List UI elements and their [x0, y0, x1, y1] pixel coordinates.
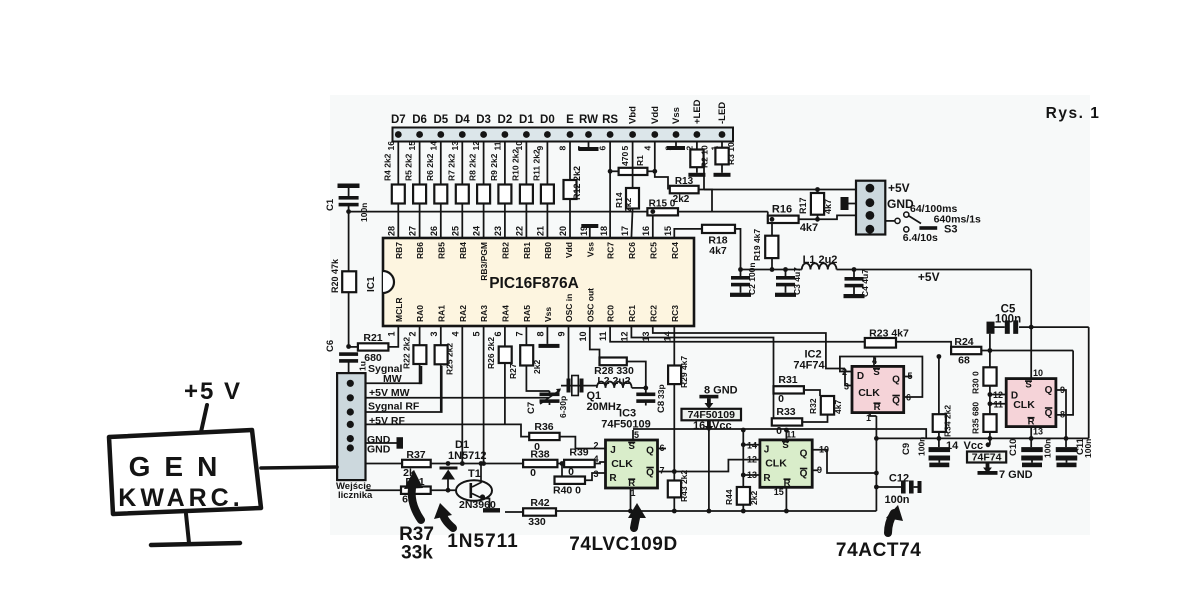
svg-text:R23 4k7: R23 4k7: [869, 328, 909, 340]
svg-text:GND: GND: [367, 444, 391, 456]
connector J2 Wejscie licznika: [337, 373, 365, 480]
inductor L1 2u2: [802, 263, 837, 269]
svg-text:33p: 33p: [656, 384, 666, 399]
svg-text:3: 3: [429, 332, 439, 337]
svg-text:R22 2k2: R22 2k2: [402, 337, 412, 369]
inductor L2 2u2: [597, 382, 632, 388]
wire Sygnal MW to R22: [366, 366, 422, 383]
wire loop D to Qbar: [840, 357, 923, 398]
svg-text:0: 0: [776, 425, 782, 437]
svg-text:Sygnal RF: Sygnal RF: [368, 401, 420, 413]
svg-text:R21: R21: [363, 332, 382, 344]
wire R28 to C8: [627, 362, 646, 393]
resistor R29 4k7: [668, 366, 681, 385]
wire C1 column: [348, 203, 350, 347]
svg-text:D4: D4: [455, 114, 470, 126]
svg-text:2: 2: [408, 332, 418, 337]
svg-text:R13: R13: [675, 176, 694, 187]
resistor R7 2k2: [456, 185, 469, 204]
resistor R26 2k2: [504, 326, 506, 347]
svg-text:100n: 100n: [1043, 439, 1053, 458]
svg-text:R7 2k2: R7 2k2: [446, 153, 456, 181]
svg-text:R19 4k7: R19 4k7: [752, 229, 762, 261]
capacitor C2 100n: [738, 267, 743, 272]
ground RW pin7: [579, 147, 599, 151]
node R19 top: [770, 217, 775, 222]
ground R3: [714, 173, 731, 177]
wire Q pin5: [904, 376, 912, 378]
resistor R11 2k2: [541, 185, 554, 204]
wire OSCout elbow: [590, 326, 600, 362]
svg-text:Q: Q: [1045, 385, 1053, 396]
svg-text:+LED: +LED: [692, 99, 703, 124]
wire GND row: [366, 442, 398, 444]
svg-text:11: 11: [993, 400, 1003, 410]
svg-text:15: 15: [663, 226, 673, 236]
capacitor C4 4u7: [852, 267, 857, 272]
svg-text:R30 0: R30 0: [971, 371, 981, 394]
svg-text:8 GND: 8 GND: [704, 385, 738, 397]
resistor R3 10: [715, 148, 728, 165]
wire to pin16: [652, 215, 654, 238]
svg-text:4: 4: [642, 146, 652, 151]
svg-text:2k2: 2k2: [532, 360, 542, 374]
svg-text:100n: 100n: [1083, 439, 1093, 458]
svg-text:0: 0: [530, 467, 536, 479]
node R43 top: [672, 469, 677, 474]
capacitor C6 1u: [339, 352, 358, 356]
LCD header bar J1: [393, 128, 734, 142]
wire FF pink1 pin4 top: [873, 357, 875, 367]
svg-text:2N3960: 2N3960: [459, 499, 496, 511]
svg-text:R35 680: R35 680: [971, 402, 981, 434]
svg-text:C9: C9: [901, 443, 912, 455]
svg-text:7: 7: [659, 466, 664, 476]
header pin D4: [459, 131, 466, 138]
resistor R4 column wire: [397, 142, 399, 239]
header pin D3: [480, 131, 487, 138]
transistor T1 2N3960: [456, 480, 492, 501]
resistor R16 4k7: [767, 212, 769, 220]
resistor R8 2k2: [477, 185, 490, 204]
svg-text:R11 2k2: R11 2k2: [531, 149, 541, 181]
svg-text:100n: 100n: [359, 203, 369, 222]
resistor R42 330: [523, 508, 556, 515]
svg-text:RC0: RC0: [606, 305, 616, 322]
resistor R5 column wire: [419, 142, 421, 239]
resistor R33 0: [773, 394, 775, 423]
wire FF1 pin1 bottom: [630, 488, 632, 511]
svg-text:20MHz: 20MHz: [587, 401, 622, 413]
wire bottom long row: [505, 511, 523, 513]
flip-flop IC2a body: [852, 366, 904, 412]
wire FF2 pin14: [743, 444, 760, 446]
svg-text:R: R: [763, 473, 771, 484]
capacitor C1 100n: [338, 184, 360, 189]
svg-text:R: R: [609, 473, 617, 484]
wire FF2 pin11: [785, 430, 787, 440]
resistor R38 0: [523, 460, 557, 467]
svg-text:330: 330: [528, 516, 546, 528]
resistor R9 column wire: [504, 142, 506, 239]
wire +LED column: [696, 142, 698, 150]
svg-text:D6: D6: [412, 114, 427, 126]
wire R15 to R16: [678, 211, 768, 213]
svg-text:D7: D7: [391, 114, 406, 126]
node R20/R21/C6: [346, 344, 351, 349]
svg-text:13: 13: [450, 141, 460, 151]
header pin E: [567, 131, 574, 138]
svg-text:5: 5: [634, 430, 639, 440]
hand arrow to 2N3960: [443, 513, 453, 528]
resistor R4 2k2: [392, 185, 405, 204]
wire R41 to T1 base: [431, 489, 456, 491]
svg-text:D2: D2: [498, 114, 513, 126]
svg-text:27: 27: [408, 226, 418, 236]
resistor R10 column wire: [525, 142, 527, 239]
node RS/R1: [608, 169, 613, 174]
svg-text:6: 6: [493, 332, 503, 337]
svg-text:R38: R38: [530, 449, 549, 461]
resistor R14 2k2: [626, 188, 639, 209]
svg-text:4k7: 4k7: [709, 245, 727, 257]
resistor R31 0: [774, 386, 804, 393]
svg-text:CLK: CLK: [765, 458, 787, 470]
svg-text:C2 100n: C2 100n: [747, 262, 757, 295]
svg-text:D0: D0: [540, 114, 555, 126]
svg-text:1N5712: 1N5712: [448, 450, 487, 462]
svg-text:D: D: [857, 371, 864, 382]
wire RC0 bus: [610, 326, 865, 342]
wire R30 to R35: [989, 386, 991, 415]
svg-text:RC1: RC1: [627, 305, 637, 322]
wire -LED column: [721, 142, 723, 148]
resistor R30 0: [983, 367, 996, 385]
svg-text:R43 2k2: R43 2k2: [679, 470, 689, 502]
svg-text:2k2: 2k2: [749, 491, 759, 505]
resistor R2 10: [690, 150, 703, 168]
wire +5V MW row: [366, 397, 550, 399]
resistor R25 2k2: [440, 326, 442, 345]
wire row y463.5: [366, 463, 403, 465]
svg-text:5: 5: [620, 146, 630, 151]
svg-text:74F74: 74F74: [972, 451, 1002, 463]
svg-text:Q: Q: [800, 449, 808, 460]
resistor R44 2k2: [742, 430, 744, 487]
wire FF2 pin13: [743, 474, 760, 476]
svg-text:74LVC109D: 74LVC109D: [569, 534, 678, 555]
svg-text:R12 2k2: R12 2k2: [572, 166, 582, 200]
svg-text:E: E: [566, 114, 574, 126]
svg-text:C10: C10: [1008, 439, 1019, 456]
svg-text:12: 12: [471, 141, 481, 151]
wire R39 to CLK pin4: [595, 462, 606, 464]
wire Vss pin3: [675, 142, 677, 147]
svg-text:100n: 100n: [884, 494, 909, 506]
svg-text:D1: D1: [519, 114, 534, 126]
svg-text:R16: R16: [772, 204, 792, 216]
capacitor C8 33p: [636, 393, 655, 397]
wire RA2 column: [461, 326, 463, 464]
resistor R9 2k2: [498, 185, 511, 204]
svg-text:Q: Q: [1045, 408, 1053, 419]
svg-text:RC6: RC6: [627, 242, 637, 259]
wire FF2 pin15: [785, 487, 787, 511]
capacitor C10 100n: [1021, 447, 1043, 452]
svg-text:1N5711: 1N5711: [447, 531, 519, 552]
svg-text:RB5: RB5: [436, 242, 446, 259]
wire R31 to R32: [804, 390, 820, 396]
wire +5V top to connector: [704, 189, 856, 191]
svg-text:13: 13: [641, 332, 651, 342]
wire C5 right down: [1088, 327, 1090, 438]
svg-text:18: 18: [599, 226, 609, 236]
header pin D1: [523, 131, 530, 138]
header pin D6: [416, 131, 423, 138]
svg-text:R5 2k2: R5 2k2: [404, 153, 414, 181]
wire RC3/R29 column: [673, 326, 675, 366]
ground Vss: [667, 146, 685, 150]
svg-text:Vss: Vss: [671, 107, 682, 124]
ground Vss pin19: [581, 224, 598, 228]
wire +5V RF row: [366, 424, 530, 436]
svg-text:R39: R39: [569, 447, 588, 459]
resistor R7 column wire: [461, 142, 463, 239]
resistor R40 0: [561, 464, 563, 481]
svg-text:26: 26: [429, 226, 439, 236]
resistor R6 column wire: [440, 142, 442, 239]
svg-text:RB1: RB1: [522, 242, 532, 259]
svg-text:R33: R33: [776, 406, 795, 418]
svg-text:R24: R24: [954, 336, 973, 348]
svg-text:4k7: 4k7: [833, 400, 843, 414]
svg-text:+5V: +5V: [918, 270, 940, 284]
svg-text:1: 1: [386, 332, 396, 337]
header pin D5: [437, 131, 444, 138]
svg-text:Q: Q: [892, 375, 900, 386]
svg-text:17: 17: [620, 226, 630, 236]
svg-text:RB3/PGM: RB3/PGM: [479, 242, 489, 281]
header pin Vbd: [629, 131, 636, 138]
svg-text:10: 10: [578, 332, 588, 342]
svg-text:T1: T1: [468, 468, 481, 480]
resistor R35 680: [983, 414, 996, 432]
hand box GEN KWARC generator: [109, 430, 261, 514]
svg-text:RS: RS: [602, 114, 618, 126]
svg-text:RC5: RC5: [648, 242, 658, 259]
box 74F74: [967, 452, 1006, 463]
svg-text:16: 16: [641, 226, 651, 236]
svg-text:KWARC.: KWARC.: [118, 484, 243, 512]
node C1/row: [346, 209, 351, 214]
resistor R11 column wire: [546, 142, 548, 239]
svg-text:R3 10: R3 10: [726, 142, 736, 165]
resistor R18 4k7: [702, 225, 735, 233]
header pin D2: [502, 131, 509, 138]
resistor R6 2k2: [434, 185, 447, 204]
resistor R12 2k2: [564, 180, 577, 199]
svg-text:8: 8: [558, 146, 568, 151]
svg-text:2k2: 2k2: [623, 198, 633, 212]
wire Vdd column elbow: [654, 142, 656, 172]
header pin Vdd: [651, 131, 658, 138]
wire FF1 Q pin6: [658, 448, 667, 450]
wire OSCin column: [568, 326, 570, 386]
resistor R27 2k2: [525, 326, 527, 345]
svg-text:24: 24: [472, 226, 482, 236]
capacitor C11 100n: [1065, 438, 1067, 447]
connector J3 +5V/GND: [856, 181, 885, 235]
svg-text:C1: C1: [325, 198, 336, 211]
svg-text:4: 4: [450, 332, 460, 337]
resistor R1 470: [619, 168, 648, 175]
resistor R37 2k: [402, 460, 431, 467]
svg-text:RB7: RB7: [394, 242, 404, 259]
capacitor tantalum blob: [841, 197, 849, 210]
svg-text:Q: Q: [892, 396, 900, 407]
wire pin15 row: [674, 229, 702, 238]
svg-text:15: 15: [407, 141, 417, 151]
wire long row y430: [633, 429, 926, 438]
svg-text:R40 0: R40 0: [553, 485, 581, 497]
svg-text:6-30p: 6-30p: [558, 396, 568, 418]
header pin RW: [585, 131, 592, 138]
wire FF1 Qbar pin7 to FF2 pin12: [658, 460, 760, 472]
svg-text:OSC out: OSC out: [585, 288, 595, 322]
hand ground: [186, 514, 189, 543]
svg-text:20: 20: [558, 226, 568, 236]
svg-text:R36: R36: [534, 421, 553, 433]
svg-text:R25 2k2: R25 2k2: [445, 343, 455, 375]
svg-text:RA1: RA1: [436, 305, 446, 322]
svg-text:Vcc: Vcc: [964, 440, 984, 452]
svg-text:-LED: -LED: [717, 102, 728, 124]
svg-text:23: 23: [493, 226, 503, 236]
wire R34 column: [938, 357, 940, 415]
svg-text:15: 15: [774, 487, 784, 497]
svg-text:5: 5: [472, 332, 482, 337]
resistor R10 2k2: [520, 185, 533, 204]
svg-text:0: 0: [778, 393, 784, 405]
resistor R21 680: [349, 346, 358, 348]
hand wire to connector: [261, 467, 337, 468]
hand wire +5V lead: [201, 405, 207, 432]
wire RW to ground: [588, 142, 590, 148]
svg-text:D5: D5: [433, 114, 448, 126]
header pin RS: [607, 131, 614, 138]
svg-text:11: 11: [492, 141, 502, 150]
svg-text:J: J: [764, 445, 770, 456]
wire FF2 pin9: [812, 469, 818, 471]
svg-text:8: 8: [1060, 410, 1065, 420]
wire E column: [569, 142, 571, 239]
svg-text:RC3: RC3: [670, 305, 680, 322]
capacitor C3 4u7: [783, 267, 788, 272]
svg-text:74F74: 74F74: [793, 360, 825, 372]
svg-text:RC4: RC4: [670, 242, 680, 259]
wire R16 to connector pin3: [799, 215, 856, 219]
wire R23 to R24: [896, 342, 951, 351]
svg-text:100n: 100n: [917, 437, 927, 456]
svg-text:R6 2k2: R6 2k2: [425, 153, 435, 181]
svg-text:3: 3: [593, 469, 598, 479]
box 74F50109: [682, 409, 742, 421]
svg-text:470: 470: [620, 152, 630, 166]
svg-text:RW: RW: [579, 114, 598, 126]
wire R1 row: [610, 170, 619, 172]
svg-text:8: 8: [535, 332, 545, 337]
wire row y438: [876, 437, 1088, 439]
wire to FF2 D pin12: [990, 394, 1006, 396]
hand arrow to C12/74ACT74: [888, 513, 894, 533]
svg-text:Vdd: Vdd: [564, 242, 574, 258]
svg-text:R37: R37: [406, 449, 425, 461]
svg-text:4k7: 4k7: [823, 199, 833, 214]
svg-text:Q: Q: [646, 446, 654, 457]
svg-text:12: 12: [747, 455, 757, 465]
svg-text:R10 2k2: R10 2k2: [510, 149, 520, 181]
op IC1 PIC16F876A body: [383, 238, 694, 326]
wire C5 left down to R30: [989, 334, 991, 368]
wire R1 right: [647, 170, 654, 172]
wire FF2 pink pin9: [1056, 390, 1066, 438]
svg-text:R9 2k2: R9 2k2: [489, 153, 499, 181]
svg-text:4k7: 4k7: [800, 222, 818, 234]
wire RC2 bus: [653, 326, 845, 369]
svg-text:R4 2k2: R4 2k2: [382, 153, 392, 181]
svg-text:12: 12: [619, 332, 629, 342]
svg-text:13: 13: [1033, 427, 1043, 437]
svg-text:licznika: licznika: [338, 490, 373, 501]
ground R2: [688, 173, 705, 177]
wire RC1 bus: [631, 326, 773, 391]
svg-text:33k: 33k: [401, 543, 433, 564]
svg-text:C8: C8: [656, 401, 667, 413]
svg-text:25: 25: [450, 226, 460, 236]
hand arrow to R37: [412, 483, 421, 520]
svg-text:R44: R44: [724, 489, 734, 505]
svg-text:Q: Q: [800, 469, 808, 480]
header pin D0: [544, 131, 551, 138]
capacitor C12 100n: [876, 486, 901, 488]
svg-text:14: 14: [428, 141, 438, 151]
svg-text:RB2: RB2: [500, 242, 510, 259]
svg-text:RA2: RA2: [458, 305, 468, 322]
wire R21 to MCLR: [388, 326, 398, 347]
resistor R32 4k7: [821, 396, 834, 415]
svg-text:RB6: RB6: [415, 242, 425, 259]
svg-text:R27: R27: [508, 363, 518, 379]
wire RA3 column: [483, 326, 485, 464]
resistor R13 2k2: [670, 186, 699, 194]
flip-flop IC3b body: [760, 440, 812, 487]
resistor R8 column wire: [483, 142, 485, 239]
wire pin1 down: [870, 413, 876, 416]
header pin D7: [395, 131, 402, 138]
resistor R17 4k7: [815, 187, 820, 192]
wire R13 right: [699, 190, 712, 213]
ground T1: [483, 508, 500, 512]
svg-text:RA5: RA5: [522, 305, 532, 322]
wire FF2 pink pin13 down: [1030, 427, 1032, 448]
svg-text:RC2: RC2: [648, 305, 658, 322]
crystal Q1 20MHz: [561, 385, 597, 387]
svg-text:11: 11: [598, 332, 608, 342]
svg-text:Vss: Vss: [585, 242, 595, 257]
svg-text:RA4: RA4: [500, 305, 510, 322]
resistor R24 68: [951, 347, 981, 354]
wire FF1 S pin5 top: [632, 430, 634, 440]
